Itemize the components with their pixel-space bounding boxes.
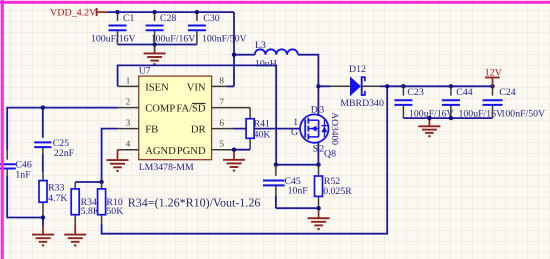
capacitor C30	[188, 12, 247, 44]
pin 4 AGND	[118, 139, 177, 157]
svg-text:LM3478-MM: LM3478-MM	[139, 162, 194, 173]
node divider junction	[99, 180, 103, 184]
node C44 junction	[449, 84, 453, 88]
svg-text:COMP: COMP	[145, 104, 175, 115]
pin 2 COMP	[118, 97, 176, 115]
svg-text:VIN: VIN	[187, 83, 206, 94]
svg-text:100uF/16V: 100uF/16V	[91, 33, 136, 44]
wire DR to gate	[233, 128, 301, 130]
node L3 tap	[232, 53, 236, 57]
wire FB net	[102, 129, 118, 182]
wire C25 branch	[42, 108, 44, 138]
capacitor C28	[146, 12, 196, 44]
node C23 junction	[401, 84, 405, 88]
svg-text:R34=(1.26*R10)/Vout-1.26: R34=(1.26*R10)/Vout-1.26	[128, 195, 261, 209]
op-amp U7 body LM3478-MM	[139, 66, 212, 173]
node 12V junction	[490, 84, 494, 88]
power port 12V	[485, 67, 503, 86]
pin 3 FB	[118, 118, 159, 136]
pin 8 VIN	[187, 75, 227, 93]
wire switch to diode	[318, 85, 330, 87]
svg-text:C30: C30	[203, 13, 219, 24]
node switch node	[316, 84, 320, 88]
svg-text:8: 8	[220, 75, 225, 85]
ground AGND	[117, 150, 119, 160]
svg-text:6: 6	[220, 118, 225, 128]
svg-text:L3: L3	[255, 40, 266, 51]
node R33 bottom junction	[41, 215, 45, 219]
power port VDD_4.2V	[50, 7, 108, 18]
wire PGND run	[234, 149, 250, 151]
wire VIN riser	[233, 12, 235, 86]
ground PGND	[233, 150, 235, 160]
node C1 junction	[115, 10, 119, 14]
wire sense top	[276, 164, 319, 166]
ground output caps	[428, 118, 430, 126]
svg-text:7: 7	[220, 97, 225, 107]
svg-text:FB: FB	[145, 125, 158, 136]
node C28 junction	[152, 10, 156, 14]
svg-text:Q8: Q8	[324, 149, 336, 160]
resistor R41	[246, 108, 270, 150]
svg-text:MBRD340: MBRD340	[340, 98, 384, 109]
svg-text:PGND: PGND	[177, 146, 206, 157]
capacitor C1	[91, 12, 136, 44]
svg-text:C44: C44	[456, 87, 472, 98]
capacitor C45	[263, 165, 308, 197]
node C44 bottom junction	[449, 116, 453, 120]
inductor L3	[255, 40, 298, 69]
pin 7 FA/SD	[176, 97, 232, 115]
capacitor C24	[483, 86, 546, 119]
wire output cap bottom rail	[403, 117, 492, 119]
node COMP branch	[41, 105, 45, 109]
svg-text:D: D	[311, 104, 318, 115]
transistor Q8 AO3400	[291, 104, 339, 159]
resistor R52	[315, 165, 353, 209]
sheet edge magenta border	[0, 1, 550, 4]
wire C46 bottom	[7, 176, 43, 218]
wire source	[317, 142, 319, 165]
wire feedback sense	[102, 86, 388, 233]
capacitor C23	[394, 86, 453, 119]
node output sense junction	[385, 84, 389, 88]
ground R34	[74, 226, 76, 235]
svg-text:100nF/50V: 100nF/50V	[501, 109, 546, 120]
resistor R33	[39, 172, 67, 218]
svg-text:100uF/16V: 100uF/16V	[151, 33, 196, 44]
svg-text:1: 1	[126, 75, 131, 85]
wire diode to output	[380, 85, 387, 87]
capacitor C46	[0, 150, 32, 181]
node sense ground junction	[316, 206, 320, 210]
wire L3 to switch node	[298, 55, 319, 87]
node output ground tap	[427, 116, 431, 120]
node PGND junction	[232, 148, 236, 152]
resistor R10	[98, 182, 124, 224]
svg-text:C1: C1	[123, 13, 135, 24]
node sense left	[274, 163, 278, 167]
svg-text:S: S	[313, 143, 318, 154]
svg-text:VDD_4.2V: VDD_4.2V	[50, 7, 97, 18]
wire to ground	[42, 218, 44, 227]
diode D12 MBRD340	[330, 64, 384, 109]
wire VIN to riser	[227, 85, 234, 87]
svg-text:AO3400: AO3400	[329, 112, 339, 145]
svg-text:U7: U7	[139, 66, 151, 77]
ground input caps	[154, 46, 156, 53]
svg-text:10nF: 10nF	[288, 185, 309, 196]
svg-text:10uH: 10uH	[255, 58, 277, 69]
pin 1 ISEN	[118, 75, 169, 93]
svg-text:22nF: 22nF	[54, 148, 75, 159]
wire to L3	[234, 54, 255, 56]
svg-text:4: 4	[126, 139, 131, 149]
svg-text:ISEN: ISEN	[145, 83, 169, 94]
svg-text:5: 5	[220, 139, 225, 149]
svg-text:4.7K: 4.7K	[48, 193, 67, 204]
wire sense bottom	[276, 207, 319, 209]
svg-text:3: 3	[319, 104, 324, 115]
svg-text:3: 3	[126, 118, 131, 128]
capacitor C44	[442, 86, 503, 119]
svg-text:AGND: AGND	[145, 146, 176, 157]
node sense right	[316, 163, 320, 167]
resistor R34	[71, 182, 100, 226]
node ground tap	[152, 42, 156, 46]
wire FA/SD to R41	[233, 107, 251, 109]
svg-text:R41: R41	[254, 119, 270, 130]
svg-text:2: 2	[126, 97, 131, 107]
svg-text:C28: C28	[160, 13, 176, 24]
svg-text:0.025R: 0.025R	[323, 186, 352, 197]
pin 6 DR	[191, 118, 233, 136]
svg-text:FA/SD: FA/SD	[176, 104, 206, 115]
wire capacitor bottom rail	[118, 44, 197, 46]
pin 5 PGND	[177, 139, 234, 157]
wire C45 bottom	[275, 196, 277, 208]
svg-text:G: G	[291, 127, 298, 138]
svg-text:1nF: 1nF	[15, 170, 31, 181]
ground R33/C46	[42, 226, 44, 235]
svg-text:C24: C24	[499, 87, 515, 98]
svg-text:DR: DR	[191, 125, 207, 136]
wire C25 to R33	[42, 155, 44, 173]
capacitor C25	[34, 138, 74, 159]
node C30 junction	[195, 10, 199, 14]
wire output rail	[387, 85, 492, 87]
ground R52	[318, 208, 320, 218]
svg-text:C23: C23	[407, 87, 423, 98]
svg-text:D12: D12	[349, 64, 366, 75]
svg-text:40K: 40K	[254, 129, 271, 140]
wire ISEN loop	[118, 65, 277, 164]
svg-text:50K: 50K	[106, 206, 123, 217]
wire VDD rail	[108, 11, 234, 13]
wire COMP net	[7, 108, 117, 150]
wire divider top	[75, 181, 101, 183]
svg-text:100nF/50V: 100nF/50V	[202, 33, 247, 44]
wire drain	[317, 86, 319, 116]
